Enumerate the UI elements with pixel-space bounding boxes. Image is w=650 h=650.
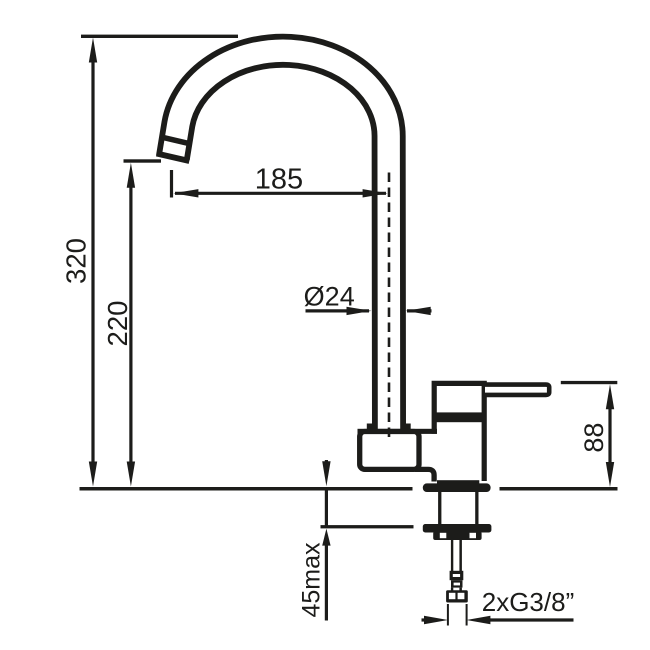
- tube collar: [451, 580, 463, 587]
- deck / counter line right segment: [500, 487, 618, 491]
- dim 2xG3/8 right line: [485, 618, 574, 621]
- threaded shank right wall: [475, 492, 478, 526]
- spout base block: [360, 432, 419, 470]
- connector hole left: [449, 593, 456, 599]
- dim 45max tail line: [325, 544, 328, 621]
- dim 2xG3/8 extension line right: [466, 604, 468, 626]
- svg-text:2xG3/8”: 2xG3/8”: [482, 587, 575, 617]
- lock nut lower bar: [433, 532, 481, 541]
- lock nut notch right: [470, 533, 477, 538]
- dim Ø24 right line: [407, 309, 432, 312]
- dim 220 extension line: [124, 159, 162, 162]
- svg-text:88: 88: [579, 423, 609, 453]
- svg-text:45max: 45max: [297, 542, 325, 618]
- svg-text:Ø24: Ø24: [304, 282, 355, 312]
- dim 88 top extension line: [561, 381, 618, 384]
- dim 2xG3/8 arrow right: [424, 616, 448, 624]
- dim 45max middle line: [325, 489, 328, 527]
- dim 2xG3/8 left line: [422, 618, 431, 621]
- G3/8 connector: [446, 590, 468, 602]
- supply tube left wall: [451, 540, 453, 572]
- handle lever: [485, 385, 549, 395]
- connector hole right: [458, 593, 465, 599]
- pipe flare right step: [405, 424, 411, 434]
- dim 320 top extension line: [81, 35, 238, 38]
- dim 88 arrow up: [606, 384, 614, 409]
- dim 220 arrow down: [127, 462, 135, 487]
- spout tip band: [162, 137, 191, 144]
- dim 45max lower extension line: [321, 525, 414, 528]
- dim 185 arrow left: [173, 189, 198, 197]
- svg-text:185: 185: [255, 163, 303, 195]
- spout base top edge: [358, 429, 438, 434]
- lock nut notch left: [440, 533, 447, 538]
- spout tip end face: [157, 154, 190, 162]
- dim Ø24 arrow right: [347, 307, 372, 315]
- dim 45max upper stub: [325, 460, 328, 465]
- dim 320 arrow down: [89, 462, 97, 487]
- mixer body outline: [434, 383, 484, 481]
- dim 320 arrow up: [89, 38, 97, 63]
- dim 220 line: [129, 185, 132, 464]
- dim 220 arrow up: [127, 163, 135, 188]
- dim Ø24 arrow left: [406, 307, 431, 315]
- pipe centerline (dashed): [388, 173, 391, 441]
- deck / counter line left segment: [80, 487, 413, 491]
- supply tube right wall: [459, 540, 462, 572]
- dim 185 arrow right: [363, 189, 388, 197]
- pipe flare left step: [367, 424, 373, 434]
- spout tube (gooseneck): [173, 51, 389, 430]
- dim 320 line: [91, 60, 94, 464]
- dim 88 line: [608, 405, 611, 465]
- dim 45max arrow up: [322, 529, 330, 546]
- dim 2xG3/8 extension line left: [447, 604, 449, 626]
- tube stub: [451, 588, 453, 591]
- base bottom edge to body corner: [415, 469, 434, 481]
- lock nut upper bar: [423, 524, 492, 533]
- svg-text:320: 320: [60, 238, 91, 284]
- svg-text:220: 220: [102, 301, 133, 347]
- dim 185 line: [175, 192, 386, 195]
- tube collar slit: [454, 583, 460, 586]
- dim 185 extension tick: [170, 170, 173, 198]
- dim 2xG3/8 arrow left: [466, 616, 490, 624]
- body dark ring band: [435, 412, 485, 422]
- threaded shank left wall: [438, 492, 441, 526]
- body bottom edge: [437, 480, 479, 484]
- dim Ø24 left line: [306, 309, 370, 312]
- tube fitting: [451, 572, 462, 578]
- dim 88 arrow down: [606, 462, 614, 487]
- base flange at deck: [423, 483, 491, 492]
- dim 45max arrow down to deck: [322, 461, 330, 486]
